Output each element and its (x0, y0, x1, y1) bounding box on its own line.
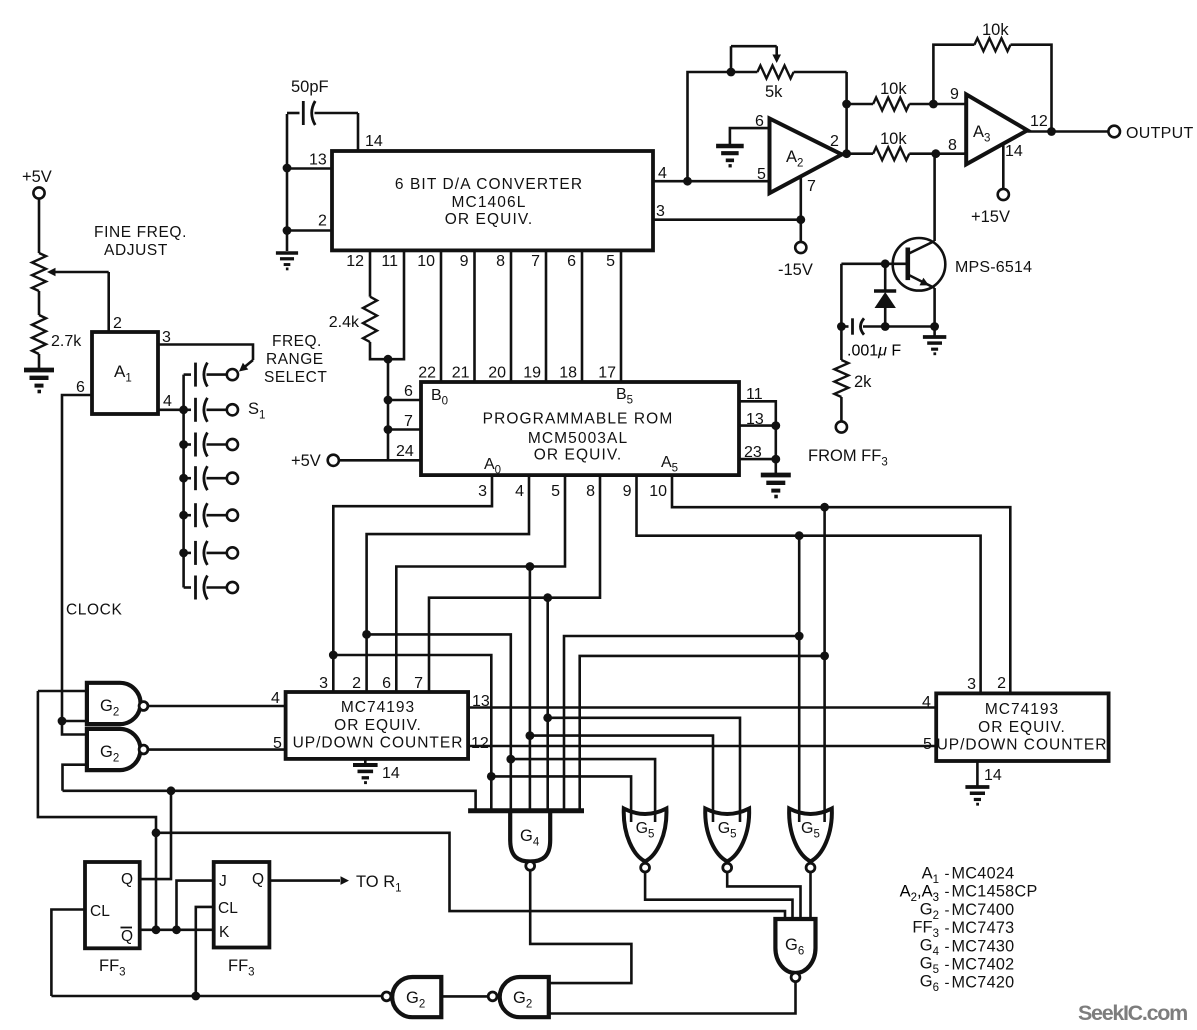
NAND gate G2 (bottom right, mirrored) (500, 977, 549, 1017)
wire branch (529, 567, 532, 811)
junction (191, 992, 200, 1001)
capacitor S1 bank row 3 (184, 443, 191, 446)
junction (179, 474, 188, 483)
svg-text:MC74193: MC74193 (341, 699, 415, 716)
ground (761, 473, 791, 478)
ground (276, 251, 298, 255)
junction (820, 652, 829, 661)
wire A3 feedback riser (933, 45, 974, 104)
wire node to 10k upper (847, 103, 874, 106)
svg-text:18: 18 (559, 365, 577, 382)
IC programmable ROM MCM5003AL (421, 382, 739, 475)
svg-text:MPS-6514: MPS-6514 (955, 259, 1032, 276)
svg-text:14: 14 (1005, 143, 1023, 160)
resistor 2.4k (363, 297, 377, 342)
resistor 10k (top feedback) (974, 38, 1010, 51)
svg-text:8: 8 (948, 137, 957, 154)
junction (58, 717, 67, 726)
ground (353, 763, 378, 767)
wire G2 lower input 2 (63, 765, 87, 791)
svg-text:Q: Q (121, 928, 133, 945)
svg-text:6: 6 (404, 383, 413, 400)
wire (38, 354, 41, 370)
wire counter2 ground pin 14 (976, 761, 979, 787)
junction (1047, 127, 1056, 136)
wire (38, 291, 41, 315)
svg-text:7: 7 (807, 178, 816, 195)
capacitor S1 bank row 5 (184, 514, 191, 517)
wire Q net row to G4 (63, 791, 476, 811)
svg-text:MC7402: MC7402 (952, 956, 1015, 974)
svg-text:+15V: +15V (971, 208, 1010, 226)
svg-text:14: 14 (382, 765, 400, 782)
svg-text:OR EQUIV.: OR EQUIV. (978, 719, 1066, 736)
svg-text:-: - (945, 884, 950, 901)
junction (820, 503, 829, 512)
wire ROM pin 10 to counter2 pin 2 (672, 475, 1010, 693)
svg-text:6: 6 (567, 253, 576, 270)
wire branch to G4 (580, 656, 825, 811)
svg-text:CLOCK: CLOCK (66, 602, 122, 619)
NAND gate G2 (bottom left, mirrored) (392, 977, 441, 1017)
junction (179, 405, 188, 414)
ground (965, 785, 989, 789)
wire G2 output to FF clocks (51, 995, 382, 998)
svg-text:MC7420: MC7420 (952, 974, 1015, 992)
wire counter1 pin12 to counter2 pin5 (468, 745, 936, 748)
wire feedback riser (688, 72, 758, 181)
svg-text:14: 14 (365, 133, 383, 150)
wire D/A pin 3 row (653, 218, 801, 221)
wire emitter (933, 288, 936, 327)
wire ROM pin 7 (388, 428, 421, 431)
svg-text:RANGE: RANGE (266, 351, 324, 368)
svg-text:OR EQUIV.: OR EQUIV. (445, 211, 534, 228)
svg-text:-: - (945, 920, 950, 937)
wire branch to G4 (564, 636, 799, 811)
wire to G2a input (62, 720, 87, 723)
junction (283, 164, 292, 173)
svg-text:12: 12 (1030, 113, 1048, 130)
wire counter1 pin13 to counter2 pin4 (468, 706, 936, 709)
wiper arrow (775, 46, 778, 56)
junction (384, 396, 393, 405)
junction (329, 651, 338, 660)
wire pin 14 (357, 113, 360, 151)
resistor 10k (middle) (873, 98, 909, 111)
svg-text:PROGRAMMABLE ROM: PROGRAMMABLE ROM (483, 411, 674, 428)
wire pin 11 (388, 250, 404, 359)
power terminal +5V (fine freq adjust) (33, 187, 44, 198)
junction (771, 421, 780, 430)
resistor 2k (840, 327, 843, 361)
wire branch to G6 (156, 833, 785, 920)
svg-text:12: 12 (346, 253, 364, 270)
svg-text:2: 2 (997, 675, 1006, 692)
wire ROM pin 8 to counter1 pin 7 (429, 475, 600, 692)
wire to A3 pin 8 (909, 152, 966, 155)
junction (842, 149, 851, 158)
svg-text:24: 24 (396, 443, 414, 460)
junction (167, 786, 176, 795)
op-amp A3 (966, 94, 1027, 164)
IC 6 bit D/A converter MC1406L (332, 151, 653, 250)
wire branch to G5c (798, 536, 801, 822)
wire between bottom G2 gates (441, 995, 488, 998)
junction (152, 828, 161, 837)
svg-text:3: 3 (319, 675, 328, 692)
svg-text:MC1458CP: MC1458CP (952, 883, 1038, 901)
svg-text:SELECT: SELECT (264, 369, 327, 386)
svg-text:OUTPUT: OUTPUT (1126, 125, 1194, 142)
svg-text:J: J (219, 873, 227, 890)
svg-text:3: 3 (967, 676, 976, 693)
junction (362, 630, 371, 639)
wire wiper link (730, 46, 733, 72)
wire D/A pin 8 to ROM (510, 250, 513, 382)
wire to G5b input (548, 718, 740, 822)
svg-text:+5V: +5V (291, 452, 321, 470)
wire (840, 397, 843, 421)
power terminal +5V (328, 455, 339, 466)
wire ROM pin 13 (739, 424, 776, 427)
svg-text:MC7430: MC7430 (952, 937, 1015, 955)
NOR gate G5 (second) (705, 809, 749, 862)
svg-text:23: 23 (744, 444, 762, 461)
capacitor S1 bank row 2 (184, 408, 191, 411)
wire FF3b Q output TO R1 (269, 879, 340, 882)
svg-text:19: 19 (523, 365, 541, 382)
wire counter ground pin 14 (364, 759, 367, 765)
junction (929, 100, 938, 109)
junction (881, 259, 890, 268)
svg-text:17: 17 (598, 365, 616, 382)
junction (384, 425, 393, 434)
wire collector riser (933, 154, 936, 241)
wire (933, 327, 936, 338)
wire A1 pin4 to capacitor bus (158, 408, 184, 411)
svg-text:2.4k: 2.4k (329, 314, 360, 331)
svg-text:7: 7 (531, 253, 540, 270)
svg-text:-: - (945, 975, 950, 992)
svg-text:3: 3 (478, 483, 487, 500)
NAND gate G2 (lower) (87, 729, 141, 770)
wire to G5a input (491, 776, 631, 822)
svg-text:2: 2 (113, 315, 122, 332)
svg-text:5: 5 (606, 253, 615, 270)
svg-text:5: 5 (757, 166, 766, 183)
svg-text:OR EQUIV.: OR EQUIV. (334, 717, 422, 734)
wire G5c output to G6 (809, 872, 812, 920)
junction (172, 925, 181, 934)
wire wiper to A1 pin 2 (107, 272, 110, 332)
svg-text:2k: 2k (854, 373, 872, 391)
junction (931, 149, 940, 158)
wire G4 output (530, 870, 631, 983)
svg-text:+5V: +5V (22, 168, 52, 186)
capacitor S1 bank row 7 (184, 586, 191, 589)
svg-text:13: 13 (746, 411, 764, 428)
svg-text:10: 10 (417, 253, 435, 270)
power terminal -15V (795, 242, 806, 253)
wire ROM pin 5 to counter1 pin 6 (396, 475, 565, 692)
svg-text:9: 9 (460, 253, 469, 270)
wire node riser (845, 72, 848, 154)
svg-text:-: - (945, 902, 950, 919)
junction (506, 755, 515, 764)
wire wiper top (731, 45, 777, 48)
wire D/A pin 9 to ROM (473, 250, 476, 382)
junction (837, 322, 846, 331)
wire branch (333, 655, 491, 811)
wire clock to FF3b CL (196, 907, 214, 996)
svg-text:2.7k: 2.7k (51, 333, 82, 350)
wire ROM pin 11 (739, 401, 776, 475)
wire pin 2 (287, 229, 332, 232)
diode CR1 (884, 264, 887, 291)
wire G5b output to G6 (727, 872, 800, 920)
capacitor S1 bank row 6 (184, 552, 191, 555)
output terminal (1108, 126, 1120, 138)
wire D/A pin 5 to ROM (620, 250, 623, 382)
svg-text:8: 8 (586, 483, 595, 500)
junction (727, 68, 736, 77)
svg-text:11: 11 (381, 253, 398, 270)
wire G5a output to G6 (645, 872, 792, 920)
capacitor 50pF (287, 112, 300, 115)
wire A2 pin 7 (799, 177, 802, 242)
wire (38, 199, 41, 253)
svg-text:10k: 10k (880, 130, 907, 148)
junction (543, 593, 552, 602)
junction (526, 731, 535, 740)
svg-text:7: 7 (414, 675, 423, 692)
svg-text:10k: 10k (982, 21, 1009, 39)
junction (152, 925, 161, 934)
svg-text:4: 4 (163, 393, 172, 410)
junction (881, 322, 890, 331)
wire pin 13 (287, 167, 332, 170)
svg-text:20: 20 (488, 365, 506, 382)
svg-text:-: - (945, 938, 950, 955)
svg-text:13: 13 (309, 152, 327, 169)
junction (842, 100, 851, 109)
svg-text:7: 7 (404, 413, 413, 430)
svg-text:FREQ.: FREQ. (272, 333, 322, 350)
svg-text:8: 8 (496, 253, 505, 270)
svg-text:2: 2 (352, 675, 361, 692)
wire FF3a CL input (51, 910, 85, 997)
junction (179, 511, 188, 520)
junction (283, 226, 292, 235)
svg-text:21: 21 (452, 365, 470, 382)
potentiometer FINE FREQ. ADJUST (32, 253, 46, 291)
junction (543, 713, 552, 722)
ground (923, 335, 946, 339)
svg-text:9: 9 (950, 86, 959, 103)
transistor MPS-6514 Q1 (893, 238, 946, 291)
wire A2 output (842, 152, 873, 155)
wire pin 12 (369, 250, 372, 296)
svg-text:-: - (945, 866, 950, 883)
svg-text:9: 9 (623, 483, 632, 500)
svg-text:MC7400: MC7400 (952, 901, 1015, 919)
junction (179, 549, 188, 558)
wire to FF3b J (177, 881, 214, 930)
svg-text:MCM5003AL: MCM5003AL (528, 430, 628, 447)
svg-text:-: - (945, 957, 950, 974)
wire Qbar net to G2 upper input (38, 691, 156, 930)
NAND gate G4 (8-input MC7430) (468, 808, 584, 813)
flip-flop FF3 (right) (214, 862, 270, 948)
op-amp block A1 (92, 332, 158, 414)
wire branch to G5c (823, 507, 826, 822)
svg-text:3: 3 (656, 203, 665, 220)
junction (683, 177, 692, 186)
svg-text:4: 4 (922, 694, 931, 711)
selector arrow S1 (242, 360, 254, 370)
junction (487, 772, 496, 781)
wire ROM pin 3 to counter1 pin 3 (333, 475, 492, 692)
wire A2 pin 6 (730, 128, 770, 146)
wire A1 pin3 to selector (158, 345, 253, 361)
svg-text:6: 6 (76, 379, 85, 396)
power terminal +15V (998, 189, 1009, 200)
svg-text:50pF: 50pF (291, 78, 329, 96)
svg-text:5: 5 (551, 483, 560, 500)
svg-text:UP/DOWN COUNTER: UP/DOWN COUNTER (293, 735, 464, 752)
svg-text:MC74193: MC74193 (985, 701, 1059, 718)
svg-text:ADJUST: ADJUST (104, 242, 168, 259)
capacitor bank bus (182, 375, 185, 588)
wire G2 output to counter1 pin 5 (148, 748, 286, 751)
svg-text:CL: CL (218, 900, 238, 917)
svg-text:22: 22 (418, 365, 436, 382)
wire branch (367, 634, 511, 810)
wire to G5b input (530, 736, 713, 822)
svg-text:2: 2 (318, 213, 327, 230)
svg-text:5: 5 (923, 736, 932, 753)
svg-text:-15V: -15V (778, 261, 813, 279)
capacitor S1 bank row 4 (184, 477, 191, 480)
potentiometer 5k (757, 66, 793, 79)
svg-text:11: 11 (746, 386, 763, 403)
wire CLOCK from A1 pin 6 (62, 395, 92, 735)
junction (795, 632, 804, 641)
NOR gate G5 (first) (624, 809, 667, 862)
junction (526, 562, 535, 571)
svg-text:6: 6 (382, 675, 391, 692)
svg-text:.001μ F: .001μ F (847, 343, 901, 360)
junction (179, 440, 188, 449)
svg-text:Q: Q (121, 871, 133, 888)
wiper arrow (52, 271, 109, 274)
NOR gate G5 (third) (789, 809, 832, 862)
capacitor S1 bank row 1 (184, 373, 191, 376)
svg-text:12: 12 (471, 735, 489, 752)
wire A3 output (1027, 130, 1108, 133)
wire D/A pin 10 to ROM (440, 250, 443, 382)
wire G6 output (549, 982, 796, 1014)
svg-text:MC4024: MC4024 (952, 865, 1015, 883)
IC up/down counter MC74193 (right) (936, 693, 1108, 761)
svg-text:OR EQUIV.: OR EQUIV. (534, 447, 623, 464)
wire cap row (840, 264, 843, 327)
wire branch (546, 598, 549, 811)
svg-text:2: 2 (830, 133, 839, 150)
wire pot to node (794, 71, 847, 74)
wire to A3 pin 9 (909, 103, 966, 106)
NAND gate G2 (upper) (87, 683, 141, 724)
svg-text:4: 4 (271, 690, 280, 707)
svg-text:14: 14 (984, 767, 1002, 784)
junction (795, 531, 804, 540)
svg-text:10: 10 (649, 483, 667, 500)
flip-flop FF3 (left) (85, 862, 140, 948)
wire ROM pin 4 to counter1 pin 2 (367, 475, 529, 692)
svg-text:SeekIC.com: SeekIC.com (1078, 1001, 1187, 1025)
wire ROM pin 6 (388, 399, 421, 402)
svg-text:4: 4 (515, 483, 524, 500)
ground (716, 144, 744, 148)
wire ROM pin 24 (339, 459, 421, 462)
wire G2 upper input 1 (38, 690, 87, 693)
junction (771, 455, 780, 464)
op-amp A2 (770, 119, 842, 194)
svg-text:UP/DOWN COUNTER: UP/DOWN COUNTER (937, 737, 1108, 754)
wire D/A pin 6 to ROM (581, 250, 584, 382)
junction (796, 215, 805, 224)
svg-text:MC7473: MC7473 (952, 919, 1015, 937)
junction (384, 355, 393, 364)
svg-text:6 BIT D/A CONVERTER: 6 BIT D/A CONVERTER (395, 176, 583, 193)
wire (286, 114, 289, 251)
wire ROM pin 23 (739, 458, 776, 461)
resistor 2.7k (32, 315, 46, 354)
svg-text:MC1406L: MC1406L (452, 194, 527, 211)
resistor 10k (lower) (873, 147, 909, 160)
svg-text:CL: CL (90, 903, 110, 920)
terminal FROM FF3 (836, 421, 847, 432)
svg-text:K: K (219, 924, 230, 941)
capacitor .001uF (841, 325, 848, 328)
svg-text:4: 4 (658, 165, 667, 182)
ground (24, 368, 54, 373)
wire to G5a input (511, 759, 655, 822)
wire FF3a Q up (140, 791, 171, 879)
junction (930, 322, 939, 331)
wire base (841, 262, 907, 265)
wire feedback top (1011, 45, 1052, 132)
wire FF3a Qbar to FF3b K (140, 928, 214, 931)
svg-text:FINE FREQ.: FINE FREQ. (94, 224, 187, 241)
NAND gate G6 (MC7420) (775, 919, 815, 973)
wire D/A pin 4 to A2 pin 5 (653, 180, 770, 183)
wire (370, 342, 388, 359)
svg-text:5k: 5k (765, 83, 783, 101)
IC up/down counter MC74193 (left) (286, 692, 469, 759)
wire D/A pin 7 to ROM (545, 250, 548, 382)
wire ROM pin 9 to counter2 pin 3 (637, 475, 981, 693)
svg-text:Q: Q (252, 871, 264, 888)
wire A3 pin 14 (1002, 144, 1005, 189)
svg-text:10k: 10k (880, 80, 907, 98)
wire bias bus (387, 359, 390, 460)
wire G2 output to counter1 pin 4 (148, 705, 286, 708)
